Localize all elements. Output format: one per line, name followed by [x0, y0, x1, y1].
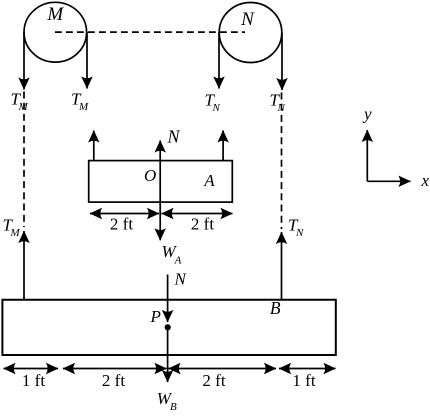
svg-text:y: y	[362, 104, 372, 123]
normal force N arrow up through block A	[159, 141, 161, 214]
pulley M	[24, 2, 87, 62]
svg-text:N: N	[167, 126, 181, 146]
rope arrow T_N left (down)	[218, 33, 220, 89]
dashed rope right	[281, 93, 283, 230]
svg-text:1 ft: 1 ft	[22, 371, 45, 390]
svg-text:TN: TN	[288, 216, 304, 240]
svg-text:2 ft: 2 ft	[102, 371, 125, 390]
point P dot	[165, 324, 171, 330]
label W_B	[157, 389, 177, 413]
label T_M middle-left	[3, 216, 21, 240]
label W_A	[162, 242, 182, 266]
label y	[362, 104, 372, 123]
bottom dimension arrow 1 ft left	[4, 368, 59, 370]
label O	[144, 166, 156, 185]
label T_M top-right	[71, 89, 89, 113]
svg-text:1 ft: 1 ft	[292, 371, 315, 390]
bottom dimension arrow 2 ft right	[169, 368, 277, 370]
rope arrow T_N right (down)	[281, 33, 283, 91]
rope arrow T_M left (down)	[23, 32, 25, 90]
up arrow right on block A	[222, 131, 224, 161]
label 2 ft (upper left)	[110, 215, 133, 234]
bottom dimension arrow 1 ft right	[279, 368, 336, 370]
dashed rope left	[23, 92, 25, 228]
beam B rectangle	[2, 300, 335, 355]
tension arrow T_N up on beam	[281, 232, 283, 300]
label 2 ft (bottom left)	[102, 371, 125, 390]
dashed line between pulley centers	[55, 31, 245, 33]
svg-text:TN: TN	[205, 91, 221, 115]
svg-text:TN: TN	[270, 91, 286, 115]
up arrow left on block A	[93, 131, 95, 161]
label B	[270, 298, 281, 318]
y axis arrow	[366, 130, 368, 181]
svg-text:N: N	[240, 9, 255, 30]
label 2 ft (bottom right)	[202, 371, 225, 390]
x axis arrow	[367, 180, 410, 182]
label T_M top-left	[11, 89, 29, 113]
label 1 ft (bottom far left)	[22, 371, 45, 390]
label N	[240, 9, 255, 30]
label x	[421, 171, 430, 190]
weight W_B arrow down	[167, 330, 169, 382]
label M	[46, 4, 64, 25]
svg-text:B: B	[270, 298, 281, 318]
svg-text:N: N	[174, 270, 188, 289]
bottom dimension arrow 2 ft left	[63, 368, 167, 370]
svg-text:M: M	[46, 4, 64, 25]
force N arrow down to P	[167, 275, 169, 323]
label 2 ft (upper right)	[191, 215, 214, 234]
label P	[150, 307, 161, 326]
svg-text:2 ft: 2 ft	[202, 371, 225, 390]
svg-text:WA: WA	[162, 242, 182, 266]
label N on block A	[167, 126, 181, 146]
svg-text:O: O	[144, 166, 156, 185]
svg-text:P: P	[150, 307, 161, 326]
dimension arrow 2 ft right of block A	[162, 213, 233, 215]
block A rectangle	[89, 161, 233, 203]
label T_N top-right	[270, 91, 286, 115]
svg-text:WB: WB	[157, 389, 177, 413]
dimension arrow 2 ft left of block A	[90, 213, 159, 215]
rope arrow T_M right (down)	[86, 32, 88, 89]
pulley N	[219, 3, 282, 63]
label A	[203, 171, 215, 190]
label T_N middle-right	[288, 216, 304, 240]
svg-text:A: A	[203, 171, 215, 190]
tension arrow T_M up on beam	[23, 231, 25, 300]
label T_N top-left	[205, 91, 221, 115]
weight W_A arrow down	[159, 214, 161, 241]
svg-text:x: x	[421, 171, 430, 190]
label 1 ft (bottom far right)	[292, 371, 315, 390]
svg-text:TM: TM	[3, 216, 21, 240]
svg-text:2 ft: 2 ft	[191, 215, 214, 234]
label N force on beam	[174, 270, 188, 289]
svg-text:TM: TM	[11, 89, 29, 113]
svg-text:TM: TM	[71, 89, 89, 113]
svg-text:2 ft: 2 ft	[110, 215, 133, 234]
